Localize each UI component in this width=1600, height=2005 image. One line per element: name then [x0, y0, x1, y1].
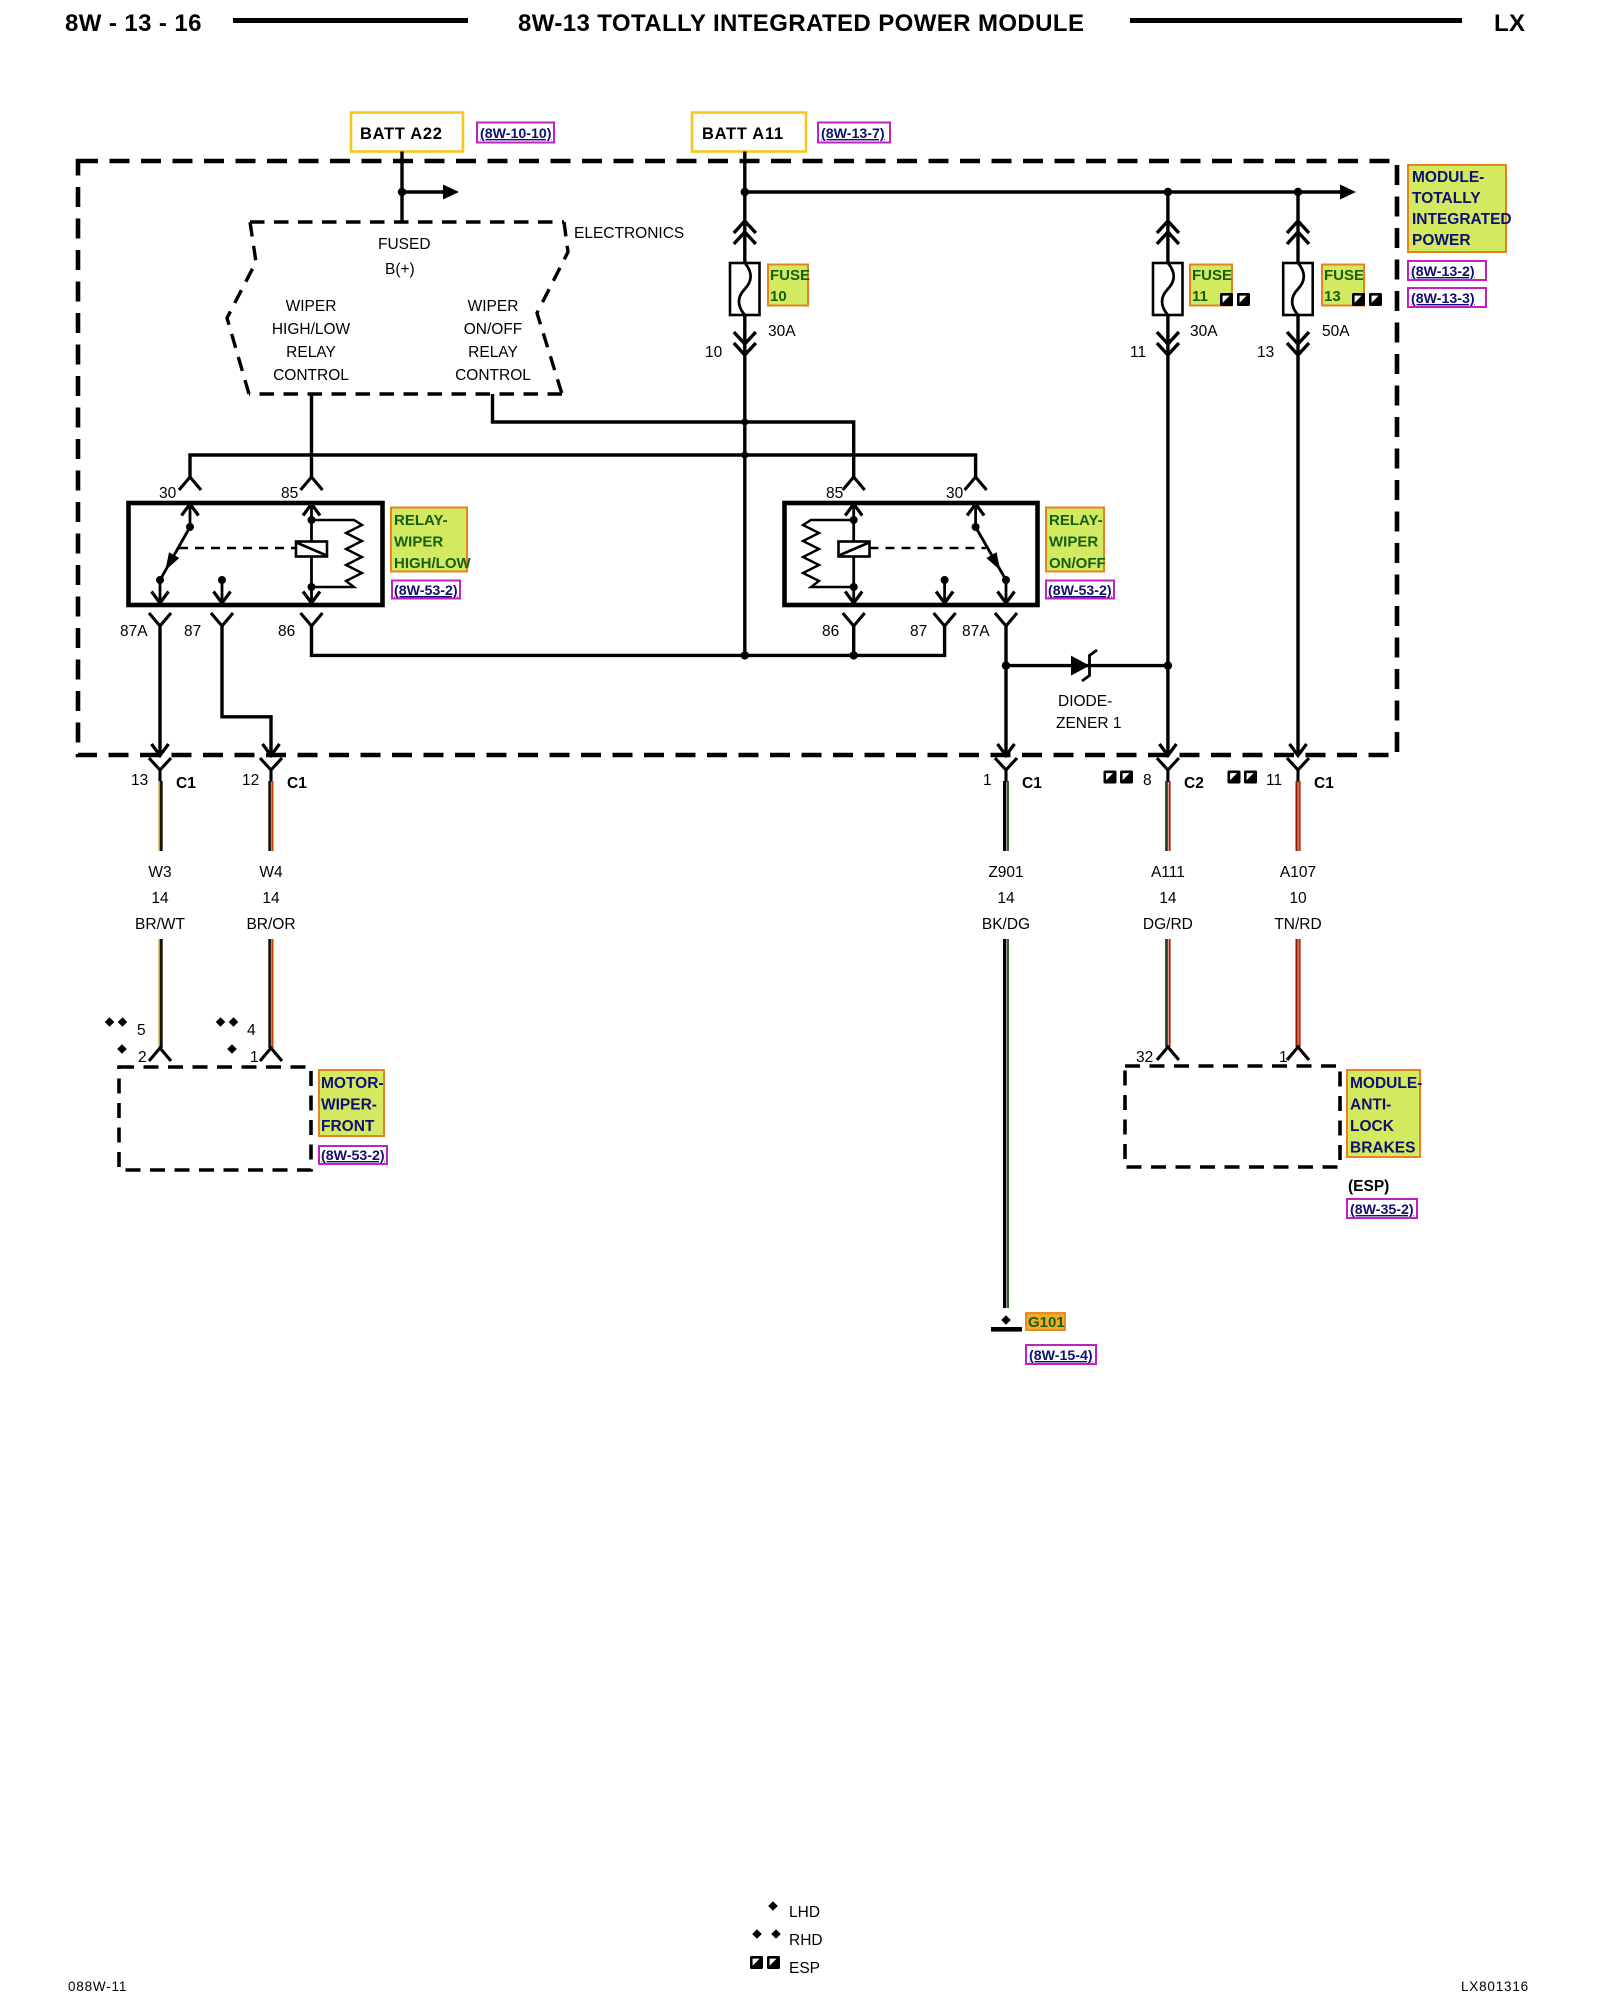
svg-text:INTEGRATED: INTEGRATED: [1412, 211, 1512, 228]
svg-text:LOCK: LOCK: [1350, 1118, 1395, 1135]
svg-text:ESP: ESP: [789, 1960, 820, 1977]
svg-text:HIGH/LOW: HIGH/LOW: [272, 321, 351, 338]
wire arrow stub right from A22 junction: [402, 190, 445, 193]
wire K2-86 to 86 bus: [852, 626, 855, 655]
svg-text:C1: C1: [1022, 775, 1042, 792]
wire fuse10 output down: [743, 315, 746, 655]
node crossing dot pin30 line: [741, 451, 748, 458]
svg-text:10: 10: [770, 288, 787, 305]
svg-text:85: 85: [281, 485, 298, 502]
svg-text:11: 11: [1130, 344, 1146, 361]
svg-text:A107: A107: [1280, 864, 1316, 881]
node junction diode to fuse11 wire: [1164, 661, 1172, 669]
svg-text:14: 14: [151, 890, 169, 907]
svg-text:LX: LX: [1494, 10, 1525, 37]
svg-text:MODULE-: MODULE-: [1350, 1075, 1422, 1092]
svg-text:1: 1: [250, 1049, 259, 1066]
wire A111 14 DG/RD upper: [1167, 781, 1170, 851]
svg-text:POWER: POWER: [1412, 232, 1471, 249]
svg-text:C1: C1: [287, 775, 307, 792]
node junction A11: [741, 188, 749, 196]
wire fuse10 feed: connector chevrons: [734, 221, 756, 244]
wire fuse13 output down to connector: [1296, 315, 1299, 756]
svg-text:(8W-53-2): (8W-53-2): [1048, 583, 1112, 599]
node ELECTRONICS control block (dashed): [227, 222, 568, 394]
link 8W-35-2: [1347, 1199, 1417, 1218]
node junction 87A / diode: [1002, 661, 1010, 669]
label MODULE-TOTALLY INTEGRATED POWER: [1408, 165, 1512, 252]
svg-text:BATT A22: BATT A22: [360, 125, 443, 143]
svg-text:10: 10: [1289, 890, 1307, 907]
node junction fuse13 tap: [1294, 188, 1302, 196]
svg-text:FUSED: FUSED: [378, 236, 431, 253]
node junction fuse10 on 86 bus: [741, 651, 749, 659]
connector C1 pin 1: [983, 758, 1042, 792]
label FUSE 10: [768, 265, 810, 306]
svg-text:8W-13 TOTALLY INTEGRATED POWER: 8W-13 TOTALLY INTEGRATED POWER MODULE: [518, 10, 1084, 37]
link 8W-53-2: [392, 581, 460, 600]
svg-text:A111: A111: [1151, 864, 1185, 881]
svg-text:30: 30: [946, 485, 964, 502]
svg-text:14: 14: [262, 890, 280, 907]
svg-text:FUSE: FUSE: [1192, 267, 1232, 284]
wire Z901 14 BK/DG upper: [1005, 781, 1008, 851]
svg-text:12: 12: [242, 772, 259, 789]
svg-text:BR/OR: BR/OR: [246, 916, 295, 933]
fuse F10: [730, 263, 760, 315]
svg-text:(8W-15-4): (8W-15-4): [1029, 1348, 1093, 1364]
label MODULE-ANTI-LOCK BRAKES: [1347, 1070, 1422, 1157]
wire pin30 bus from K1-30 to K2-30: [190, 455, 976, 478]
svg-text:ON/OFF: ON/OFF: [464, 321, 523, 338]
svg-text:50A: 50A: [1322, 323, 1350, 340]
svg-text:BR/WT: BR/WT: [135, 916, 185, 933]
svg-text:30A: 30A: [1190, 323, 1218, 340]
svg-text:11: 11: [1192, 288, 1208, 305]
svg-text:30A: 30A: [768, 323, 796, 340]
connector C1 pin 11: [1228, 758, 1335, 792]
wire K1-87A down to connector C1-13: [158, 626, 161, 756]
svg-text:(8W-10-10): (8W-10-10): [480, 126, 552, 142]
svg-text:W3: W3: [148, 864, 171, 881]
module motor-wiper-front boundary: [119, 1067, 311, 1170]
wire BATT A11 down: [743, 152, 746, 264]
svg-text:13: 13: [1257, 344, 1274, 361]
label FUSE 13: [1322, 265, 1382, 307]
svg-text:BATT A11: BATT A11: [702, 125, 784, 143]
svg-text:CONTROL: CONTROL: [455, 367, 531, 384]
svg-text:FUSE: FUSE: [1324, 267, 1364, 284]
wire K1-87 jog to connector C1-12: [222, 626, 271, 756]
svg-text:87: 87: [184, 623, 201, 640]
wire W3 14 BR/WT upper: [159, 781, 161, 851]
svg-text:FUSE: FUSE: [770, 267, 810, 284]
resistor zigzag: [803, 520, 854, 587]
coil line 85-86: [845, 504, 862, 516]
svg-text:MOTOR-: MOTOR-: [321, 1075, 384, 1092]
link 8W-10-10: [477, 123, 554, 143]
node junction fuse11 tap: [1164, 188, 1172, 196]
svg-text:RELAY: RELAY: [286, 344, 336, 361]
svg-text:13: 13: [1324, 288, 1341, 305]
svg-text:87A: 87A: [962, 623, 990, 640]
wire BATT A22 down into module: [400, 152, 403, 223]
svg-text:C1: C1: [176, 775, 196, 792]
svg-text:ON/OFF: ON/OFF: [1049, 555, 1106, 572]
svg-text:LHD: LHD: [789, 1904, 820, 1921]
svg-text:(8W-35-2): (8W-35-2): [1350, 1202, 1414, 1218]
svg-text:TN/RD: TN/RD: [1274, 916, 1321, 933]
svg-text:32: 32: [1136, 1049, 1153, 1066]
svg-text:(8W-53-2): (8W-53-2): [321, 1148, 385, 1164]
svg-text:BK/DG: BK/DG: [982, 916, 1030, 933]
label RELAY-WIPER HIGH/LOW: [391, 508, 471, 573]
wire A107 10 TN/RD upper: [1297, 781, 1300, 851]
svg-text:86: 86: [822, 623, 839, 640]
svg-text:RELAY-: RELAY-: [394, 512, 448, 529]
node BATT A11: [692, 113, 806, 152]
svg-text:WIPER: WIPER: [468, 298, 519, 315]
link 8W-13-2: [1408, 261, 1486, 280]
svg-text:1: 1: [983, 772, 992, 789]
pin 87 stub: [218, 576, 226, 584]
svg-text:1: 1: [1279, 1049, 1288, 1066]
svg-text:(8W-13-2): (8W-13-2): [1411, 264, 1475, 280]
svg-text:WIPER: WIPER: [1049, 534, 1098, 551]
svg-text:14: 14: [997, 890, 1015, 907]
svg-text:4: 4: [247, 1022, 256, 1039]
svg-text:WIPER-: WIPER-: [321, 1097, 377, 1114]
wire bus B+ to right with arrow: [745, 190, 1342, 193]
header right rule: [1130, 18, 1462, 23]
svg-text:(ESP): (ESP): [1348, 1178, 1389, 1195]
wire fuse11 output down to connector: [1166, 315, 1169, 756]
svg-text:WIPER: WIPER: [394, 534, 443, 551]
link 8W-53-2: [1046, 581, 1114, 600]
svg-text:BRAKES: BRAKES: [1350, 1140, 1415, 1157]
link 8W-13-7: [818, 123, 890, 143]
module Totally Integrated Power Module boundary: [78, 161, 1397, 755]
link 8W-13-3: [1408, 288, 1486, 307]
svg-text:DG/RD: DG/RD: [1143, 916, 1193, 933]
svg-text:8W - 13 - 16: 8W - 13 - 16: [65, 10, 202, 37]
svg-text:ANTI-: ANTI-: [1350, 1097, 1391, 1114]
node motor pin (RHD 4 / LHD 1): [216, 1017, 226, 1027]
svg-text:30: 30: [159, 485, 177, 502]
svg-text:(8W-13-7): (8W-13-7): [821, 126, 885, 142]
connector C1 pin 13: [131, 758, 196, 792]
svg-text:B(+): B(+): [385, 261, 415, 278]
legend ESP: [750, 1956, 763, 1969]
relay K2 wiper on/off: [785, 477, 1038, 640]
wire K2-87A down to connector C1-1: [1004, 626, 1007, 756]
connector C1 pin 12: [242, 758, 307, 792]
mech link dashed: [870, 547, 987, 550]
svg-text:(8W-53-2): (8W-53-2): [394, 583, 458, 599]
svg-text:(8W-13-3): (8W-13-3): [1411, 291, 1475, 307]
svg-text:87: 87: [910, 623, 927, 640]
link 8W-15-4: [1026, 1345, 1096, 1364]
svg-text:Z901: Z901: [988, 864, 1023, 881]
diode zener 1: [1071, 650, 1097, 681]
svg-text:FRONT: FRONT: [321, 1118, 375, 1135]
fuse F13: [1283, 263, 1313, 315]
wire diode branch: [1006, 664, 1168, 667]
switch arm 30-87A: [967, 504, 984, 516]
node crossing dot on/off line: [741, 418, 748, 425]
header left rule: [233, 18, 468, 23]
mech link dashed: [179, 547, 296, 550]
label MOTOR-WIPER-FRONT: [319, 1070, 384, 1136]
svg-text:86: 86: [278, 623, 295, 640]
connector C2 pin 8: [1104, 758, 1204, 792]
label FUSE 11: [1190, 265, 1250, 307]
module anti-lock brakes boundary: [1125, 1066, 1340, 1167]
svg-text:RHD: RHD: [789, 1932, 823, 1949]
link 8W-53-2: [319, 1146, 387, 1164]
svg-text:85: 85: [826, 485, 843, 502]
node junction A22: [398, 188, 406, 196]
svg-text:RELAY: RELAY: [468, 344, 518, 361]
svg-text:CONTROL: CONTROL: [273, 367, 349, 384]
pin 87 stub: [941, 576, 949, 584]
svg-text:088W-11: 088W-11: [68, 1979, 127, 1994]
node BATT A22: [351, 113, 463, 152]
legend RHD: [752, 1929, 762, 1939]
svg-text:ELECTRONICS: ELECTRONICS: [574, 225, 684, 242]
svg-text:WIPER: WIPER: [286, 298, 337, 315]
svg-text:5: 5: [137, 1022, 146, 1039]
svg-text:G101: G101: [1028, 1314, 1065, 1331]
coil line 85-86: [303, 504, 320, 516]
svg-text:LX801316: LX801316: [1461, 1979, 1529, 1994]
svg-text:C1: C1: [1314, 775, 1334, 792]
svg-text:14: 14: [1159, 890, 1177, 907]
ground G101: [991, 1315, 1022, 1331]
svg-text:13: 13: [131, 772, 148, 789]
svg-text:RELAY-: RELAY-: [1049, 512, 1103, 529]
svg-text:2: 2: [138, 1049, 147, 1066]
svg-text:DIODE-: DIODE-: [1058, 693, 1112, 710]
coil symbol: [296, 542, 327, 557]
node motor pin (RHD 5 / LHD 2): [105, 1017, 115, 1027]
wire fuse13 feed chevrons: [1287, 221, 1309, 244]
svg-text:TOTALLY: TOTALLY: [1412, 190, 1481, 207]
svg-text:MODULE-: MODULE-: [1412, 169, 1484, 186]
switch arm 30-87A: [160, 527, 190, 580]
node junction K2-86: [850, 651, 858, 659]
wire 86 bus K1-86 to K2-87: [312, 626, 945, 655]
label RELAY-WIPER ON/OFF: [1046, 508, 1106, 573]
svg-text:HIGH/LOW: HIGH/LOW: [394, 555, 471, 572]
resistor zigzag: [312, 520, 363, 587]
wire fuse11 feed chevrons: [1157, 221, 1179, 244]
svg-text:ZENER 1: ZENER 1: [1056, 715, 1121, 732]
svg-text:W4: W4: [259, 864, 283, 881]
svg-text:10: 10: [705, 344, 723, 361]
label G101: [1026, 1313, 1065, 1331]
wire wiper high/low relay control to K1 pin 85: [310, 394, 313, 478]
svg-text:C2: C2: [1184, 775, 1204, 792]
svg-text:8: 8: [1143, 772, 1152, 789]
coil symbol: [839, 542, 870, 557]
fuse F11: [1153, 263, 1183, 315]
svg-text:11: 11: [1266, 772, 1282, 789]
legend LHD: [768, 1901, 778, 1911]
svg-text:87A: 87A: [120, 623, 148, 640]
relay K1 wiper high/low: [120, 477, 383, 640]
wire W4 14 BR/OR upper: [270, 781, 273, 851]
wire wiper on/off relay control to K2 pin 85: [493, 394, 854, 478]
